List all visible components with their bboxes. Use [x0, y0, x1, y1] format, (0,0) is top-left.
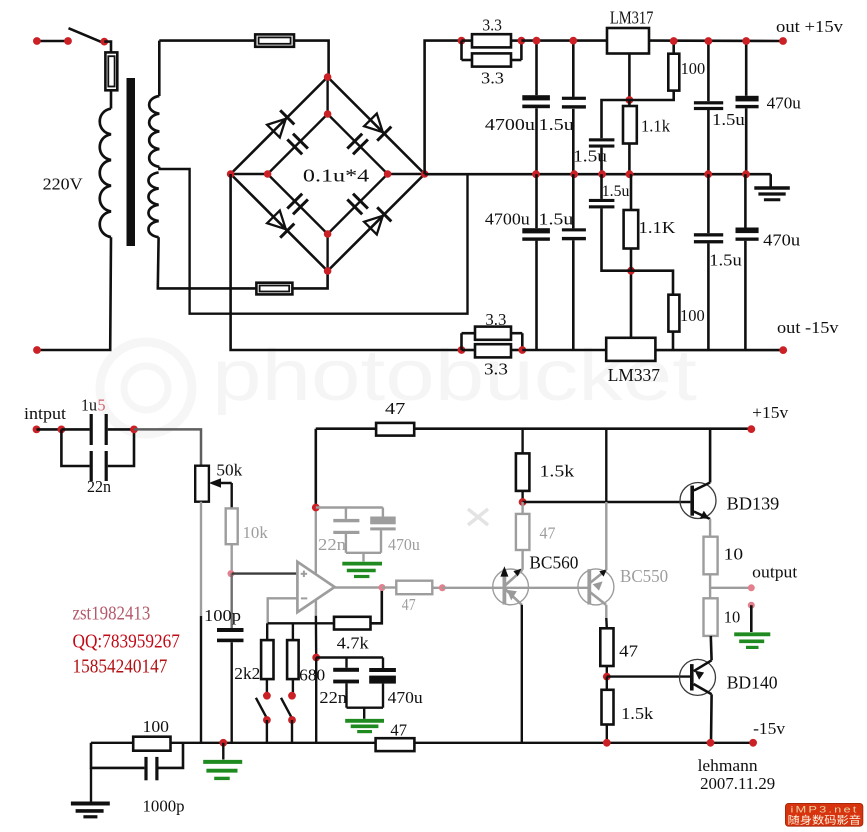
ground symbol top right [769, 174, 772, 187]
capacitor C5 4700u plates [522, 95, 550, 100]
capacitor C1 0.1u [287, 139, 302, 154]
resistor R14 1.5k upper [521, 429, 523, 454]
capacitor C20 22n bottom [345, 658, 347, 668]
wire BC550 collector to +15 rail [605, 502, 607, 570]
node opamp V+ supply [312, 504, 320, 512]
svg-text:5: 5 [98, 396, 106, 415]
svg-text:iMP3.net: iMP3.net [791, 805, 859, 815]
wire node to 100p [230, 574, 232, 628]
resistor R3 1.1k [628, 100, 631, 106]
svg-text:470u: 470u [388, 535, 420, 554]
diode D1 [267, 119, 286, 138]
resistor R8 47 output series gray [382, 586, 396, 588]
wire LM317 out rail +15 [649, 39, 783, 42]
svg-text:47: 47 [540, 523, 556, 542]
svg-text:LM337: LM337 [608, 365, 660, 385]
transistor Q4 BD140 [680, 659, 716, 695]
svg-text:BD140: BD140 [727, 673, 778, 693]
capacitor C2 0.1u [347, 134, 362, 149]
ground green opamp V- decoupling [363, 708, 365, 719]
ground green opamp V+ decoupling [362, 553, 364, 562]
svg-text:LM317: LM317 [610, 8, 654, 28]
wire input [37, 428, 62, 431]
wire 10 to BD140 emitter [709, 636, 712, 660]
svg-text:1u: 1u [81, 396, 97, 415]
node 1.5k bottom rail [603, 739, 611, 747]
resistor R11 680 [292, 623, 294, 640]
resistor R10 2k2 [266, 623, 268, 640]
svg-text:15854240147: 15854240147 [73, 656, 168, 678]
node minus rail input [458, 346, 466, 354]
node ground bottom rail [219, 739, 227, 747]
svg-text:3.3: 3.3 [485, 310, 506, 329]
iMP3 watermark badge [786, 804, 863, 827]
wire to output node [709, 574, 711, 598]
capacitor C22 1000p parallel [91, 743, 144, 768]
node inner top [324, 110, 332, 118]
diode D4 [364, 216, 383, 235]
node inner left [264, 170, 272, 178]
svg-text:1.5u: 1.5u [539, 210, 574, 229]
switch SW1 [266, 679, 268, 696]
wires 3.3 pair top [462, 39, 473, 42]
transformer T1 core [127, 78, 136, 246]
resistor R1b 3.3 [472, 53, 511, 66]
node inner right [384, 170, 392, 178]
capacitor C13 1.5u right bottom column [707, 174, 710, 233]
wire signal to BC560 and BC550 [442, 587, 589, 589]
svg-text:lehmann: lehmann [698, 756, 759, 775]
svg-text:100: 100 [681, 59, 706, 78]
wire fuse F1 to primary [110, 90, 113, 108]
svg-text:3.3: 3.3 [484, 359, 508, 378]
resistor R9 4.7k [334, 617, 371, 630]
bridge rectifier outer diamond wires [231, 77, 328, 174]
svg-text:out -15v: out -15v [777, 318, 839, 337]
capacitor C17 100p [217, 628, 244, 632]
svg-text:10k: 10k [243, 523, 269, 542]
resistor R15 47 gray [521, 502, 523, 514]
svg-text:47: 47 [402, 595, 416, 614]
svg-text:1.5u: 1.5u [602, 183, 630, 200]
resistor R5 1.1K [630, 249, 633, 271]
svg-text:4700u: 4700u [485, 210, 530, 229]
wire BD140 base [607, 675, 690, 677]
svg-text:680: 680 [299, 666, 325, 685]
wire secondary bottom to lower fuse [158, 237, 257, 288]
wire opamp V- stub [315, 599, 317, 616]
wire plus input [232, 572, 298, 574]
svg-text:50k: 50k [216, 461, 242, 480]
resistor R1a 3.3 [472, 34, 511, 47]
regulator U1 LM317 [607, 28, 649, 54]
svg-text:100p: 100p [204, 606, 241, 625]
transformer T1 primary winding [100, 109, 111, 238]
capacitor C6 1.5u column [572, 41, 575, 97]
svg-text:BC560: BC560 [529, 553, 578, 573]
regulator U1 adj lead [628, 54, 631, 101]
transformer T1 secondary upper winding [158, 41, 161, 96]
wire BC560 collector to bottom rail [521, 605, 523, 743]
svg-text:intput: intput [24, 404, 66, 423]
svg-text:+15v: +15v [752, 403, 789, 422]
svg-text:1000p: 1000p [143, 797, 185, 816]
ground green output [750, 605, 753, 632]
op-amp U3 [297, 562, 334, 612]
svg-text:4700u: 4700u [485, 115, 536, 134]
diode D3 [267, 211, 286, 230]
capacitor C8 1.5u right column [707, 41, 710, 101]
transformer T1 secondary lower winding [148, 172, 158, 237]
wire fuse F2 to bridge top [294, 41, 329, 77]
bridge inner diamond wires [268, 114, 328, 174]
node bridge top [324, 73, 332, 81]
resistor R12 100 bottom left [133, 737, 170, 751]
node 47 output right [439, 584, 446, 591]
svg-text:10: 10 [724, 607, 741, 626]
resistor R2b 3.3 [475, 344, 511, 357]
wire minus rail to LM337 [522, 349, 606, 352]
node bridge left [227, 170, 235, 178]
transistor Q1 BC560 [493, 569, 529, 605]
wire BD139 emitter to 10 [709, 519, 711, 537]
diode D2 [364, 114, 383, 133]
capacitor C4 0.1u [347, 199, 362, 214]
node LM337 adj [627, 267, 635, 275]
svg-text:1.5k: 1.5k [621, 704, 654, 723]
svg-text:22n: 22n [319, 688, 347, 707]
fuse F2 [255, 34, 294, 46]
capacitor C11 1.5u bottom column [572, 174, 575, 228]
svg-text:3.3: 3.3 [482, 15, 502, 34]
capacitor C15 1u5 [61, 428, 89, 431]
node output ground stub [748, 602, 755, 609]
ground rail wire [425, 173, 771, 176]
switch S1 terminal dots and wire [37, 40, 68, 43]
wire LM337 out rail -15 [655, 349, 783, 352]
capacitor C18 22n gray [345, 508, 347, 519]
capacitor C12 1.5u mid bottom [602, 208, 632, 270]
wire BD139 collector to rail [709, 429, 712, 483]
resistor R4 100 [672, 41, 675, 54]
wire V- node to decoupling caps [316, 656, 383, 658]
wire switch to fuse F1 [104, 42, 111, 53]
node inner bottom [324, 230, 332, 238]
svg-text:1.5k: 1.5k [540, 461, 575, 480]
node LM317 adj [626, 96, 634, 104]
bridge vertex connect stubs [326, 77, 328, 114]
watermark photobucket (faint) [100, 336, 697, 434]
svg-text:1.5u: 1.5u [712, 110, 745, 129]
node +15v end [747, 425, 755, 433]
svg-text:470u: 470u [767, 93, 802, 112]
node opamp V- supply [312, 654, 320, 662]
svg-text:2k2: 2k2 [234, 664, 260, 683]
node 220V return terminal [33, 346, 41, 354]
svg-text:1.1K: 1.1K [639, 218, 677, 237]
wire secondary top rail to fuse F2 [159, 39, 255, 42]
svg-text:QQ:783959267: QQ:783959267 [73, 631, 180, 653]
node 47 1.5k junction [603, 673, 611, 681]
wire opamp V+ stub [315, 508, 317, 575]
svg-text:随身数码影音: 随身数码影音 [788, 814, 862, 827]
wire bridge right vertex to top rail [425, 41, 462, 174]
svg-text:out +15v: out +15v [776, 17, 844, 36]
wire minus input loop [268, 598, 298, 623]
potentiometer RV1 wiper arrow [212, 482, 232, 484]
wire opamp output [335, 586, 382, 588]
svg-text:BC550: BC550 [620, 566, 668, 586]
wire BC550 emitter to 47 [605, 605, 607, 618]
transistor Q3 BD139 [680, 483, 716, 519]
svg-text:470u: 470u [388, 688, 424, 707]
capacitor C7 1.5u mid [602, 100, 630, 138]
wire top supply rail to LM317 [521, 39, 607, 42]
svg-text:BD139: BD139 [727, 494, 780, 514]
wire primary bottom to 220V terminal [37, 237, 111, 350]
svg-text:22n: 22n [318, 535, 347, 554]
potentiometer RV1 50k [195, 466, 209, 502]
switch S1 blade [69, 28, 102, 42]
transformer T1 center tap wire [159, 167, 467, 314]
ground green bottom rail [222, 743, 224, 760]
capacitor C16 22n parallel loop [61, 429, 89, 466]
svg-text:47: 47 [385, 399, 406, 418]
node out +15v end [779, 37, 787, 45]
svg-text:220V: 220V [43, 175, 84, 194]
svg-text:1.5u: 1.5u [539, 115, 575, 134]
svg-text:output: output [752, 562, 797, 581]
transistor Q2 BC550 [578, 569, 614, 605]
svg-text:100: 100 [143, 717, 170, 736]
svg-text:47: 47 [619, 642, 638, 661]
resistor R17 1.5k lower [606, 677, 608, 690]
resistor R2a 3.3 [475, 327, 511, 340]
wire +15 rail lower section [316, 427, 376, 430]
node 1.5k bottom [519, 498, 527, 506]
wire bias line to BD139 base [523, 501, 691, 503]
svg-text:zst1982413: zst1982413 [73, 603, 151, 625]
svg-text:470u: 470u [763, 230, 801, 249]
wires 3.3 pair bottom [462, 349, 476, 352]
capacitor C9 470u [745, 41, 748, 96]
capacitor C14 470u bottom [744, 174, 747, 227]
resistor R18 10 upper gray [704, 537, 718, 575]
svg-text:4.7k: 4.7k [337, 634, 369, 653]
wire to volume pot [134, 429, 201, 465]
node opamp output [379, 584, 386, 591]
regulator U2 LM337 [606, 338, 655, 361]
node top rail input [458, 37, 466, 45]
capacitor C10 4700u bottom column [535, 174, 538, 228]
svg-text:1.5u: 1.5u [709, 250, 742, 269]
wire 10k to opamp node [230, 544, 232, 573]
node input terminal [33, 426, 41, 434]
resistor R7 10k [226, 508, 238, 544]
node -15v end [749, 739, 757, 747]
resistor R6 100 bottom [631, 271, 673, 295]
svg-text:2007.11.29: 2007.11.29 [700, 774, 775, 793]
capacitor C19 470u gray [382, 508, 384, 517]
wire feedback line [268, 622, 334, 624]
switch SW2 [292, 679, 294, 696]
wire +15 rail drop to opamp supply node [314, 429, 317, 508]
ground black bottom left [90, 768, 92, 802]
node bridge right [421, 170, 429, 178]
svg-text:-15v: -15v [753, 719, 786, 738]
wire bridge left vertex to minus rail [231, 174, 462, 350]
wire fuse F3 to bridge bottom [292, 271, 327, 288]
resistor R13 47 top [376, 423, 414, 436]
resistor R19 10 lower gray [704, 598, 718, 636]
wire pot bottom to ground rail [200, 502, 202, 616]
svg-text:1.5u: 1.5u [573, 146, 607, 165]
capacitor C21 470u bottom [382, 658, 384, 669]
node bridge bottom [324, 267, 332, 275]
svg-text:0.1u*4: 0.1u*4 [303, 166, 369, 186]
svg-text:100: 100 [680, 306, 705, 325]
wire wiper to 10k [230, 483, 232, 508]
node BD140 rail [707, 739, 715, 747]
wire bottom rail left segment [91, 742, 133, 744]
regulator U2 adj lead [630, 271, 633, 338]
capacitor C3 0.1u [287, 194, 302, 209]
svg-text:1.1k: 1.1k [641, 117, 670, 136]
svg-text:10: 10 [724, 544, 744, 563]
node output [748, 584, 755, 591]
wire BD140 collector to rail [710, 694, 713, 743]
fuse F1 [105, 52, 117, 90]
svg-text:3.3: 3.3 [481, 69, 504, 88]
fuse F3 [256, 283, 292, 295]
op-amp plus mark [301, 573, 307, 575]
wire supply node to decoupling caps [316, 506, 383, 508]
node after input caps [130, 426, 138, 434]
node opamp plus input [228, 570, 235, 577]
svg-text:47: 47 [390, 720, 407, 739]
svg-text:22n: 22n [87, 477, 111, 496]
capacitor C5 4700u column wires [535, 41, 538, 96]
resistor R16b 47 mid [600, 628, 613, 666]
resistor R16 47 bottom mid in rail [376, 738, 415, 751]
op-amp minus mark [301, 597, 307, 599]
wire V- node down to bottom rail [315, 658, 317, 743]
watermark x mark [468, 509, 488, 525]
